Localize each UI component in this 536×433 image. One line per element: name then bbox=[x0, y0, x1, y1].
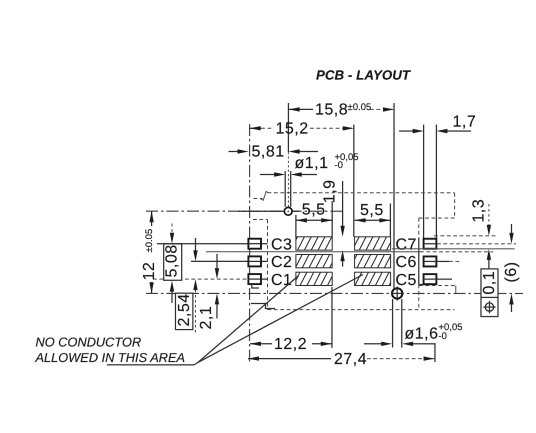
svg-text:±0.05: ±0.05 bbox=[144, 229, 155, 253]
svg-text:15,2: 15,2 bbox=[276, 120, 309, 137]
dimension 15,2 bbox=[250, 120, 354, 137]
pad C3 bbox=[248, 239, 261, 249]
svg-text:2,1: 2,1 bbox=[198, 306, 215, 330]
wire: extension line x=331.2 (12,2 right) bbox=[331, 287, 333, 348]
wire: extension line x=435 (27,4 right) bbox=[434, 343, 436, 362]
svg-text:±0.05: ±0.05 bbox=[348, 102, 372, 113]
dimension 27,4 bbox=[248, 351, 435, 368]
dimension 2,1 bbox=[198, 254, 219, 330]
dashed body outline left side bbox=[253, 219, 268, 309]
dimension hole ø1,6 +0.05/-0 bbox=[364, 322, 463, 346]
wire: extension line x=436.4 (1,7 right / pad C7 right) bbox=[435, 125, 437, 239]
svg-text:1,7: 1,7 bbox=[453, 114, 477, 131]
wire: extension line x=423.6 (1,7 left / pad C7 left) bbox=[423, 125, 425, 239]
leader underline bbox=[107, 363, 198, 365]
hole ø1,1 bbox=[284, 207, 292, 215]
svg-text:12,2: 12,2 bbox=[274, 336, 307, 353]
dimension 1,9 (hatch height) rotated label bbox=[321, 179, 344, 266]
svg-text:C3: C3 bbox=[271, 236, 292, 253]
wire: C2 row line left bbox=[191, 260, 267, 262]
svg-text:NO CONDUCTOR: NO CONDUCTOR bbox=[35, 334, 141, 349]
svg-text:C1: C1 bbox=[271, 272, 292, 289]
label C1 bbox=[271, 272, 292, 289]
wire: bottom centerline row through hole ø1,6 (y=293.4) bbox=[146, 292, 523, 294]
svg-text:0,1: 0,1 bbox=[481, 271, 498, 295]
dimension 12,2 bbox=[250, 336, 332, 353]
leader line to left hatch bbox=[198, 276, 299, 363]
svg-text:5,81: 5,81 bbox=[252, 144, 285, 161]
dimension hole ø1,1 +0.05/-0 bbox=[260, 152, 359, 177]
dimension 1,7 bbox=[399, 114, 476, 134]
svg-text:ALLOWED IN THIS AREA: ALLOWED IN THIS AREA bbox=[34, 350, 185, 365]
pad C2 bbox=[248, 256, 261, 266]
svg-text:27,4: 27,4 bbox=[334, 351, 367, 368]
svg-text:-0: -0 bbox=[438, 331, 446, 342]
right side: pad C7 top extension dashed bbox=[434, 235, 497, 237]
dimension 5,81 bbox=[229, 144, 319, 161]
right side: pad C7 bottom extension solid bbox=[392, 248, 515, 250]
svg-text:2,54: 2,54 bbox=[176, 293, 193, 326]
svg-text:5,08: 5,08 bbox=[164, 244, 181, 277]
hatched area row C2 left bbox=[296, 255, 332, 268]
svg-text:12: 12 bbox=[141, 262, 158, 281]
wire: hole1 left edge extension bbox=[284, 171, 286, 207]
svg-text:ø1,6: ø1,6 bbox=[404, 325, 438, 342]
pad C6 bbox=[424, 256, 437, 266]
dimension 5,5 left bbox=[296, 201, 332, 237]
dimension (6) vertical right bbox=[503, 224, 520, 312]
hatched area row C3 right bbox=[355, 237, 391, 250]
hatched area row C3 left bbox=[296, 237, 332, 250]
dimension 5,5 right bbox=[355, 202, 391, 237]
svg-text:5,5: 5,5 bbox=[360, 202, 384, 219]
wire: C3 row line left bbox=[157, 243, 268, 245]
dashed hidden body outline top with jog bbox=[254, 191, 455, 200]
dashed body outline right step bbox=[419, 193, 455, 310]
svg-text:1,3: 1,3 bbox=[470, 199, 487, 223]
svg-text:C2: C2 bbox=[271, 254, 292, 271]
solid step outline bottom left bbox=[251, 303, 275, 308]
label C2 bbox=[271, 254, 292, 271]
svg-text:C7: C7 bbox=[395, 236, 416, 253]
wire: C1 row line left bbox=[153, 278, 268, 280]
right side: C6 row stub bbox=[437, 260, 461, 262]
label C7 bbox=[395, 236, 416, 253]
hatched area row C2 right bbox=[355, 255, 391, 268]
pad C7 bbox=[424, 239, 437, 249]
wire: extension line x=392.6 (15,8 right / hole2 left edge) bbox=[393, 103, 394, 348]
dimension 12 +-0.05 vertical bbox=[141, 211, 158, 293]
wire: long extension line under hatch row C3 (y=251.8) bbox=[206, 251, 493, 253]
wire: hole1 right edge extension bbox=[290, 171, 292, 207]
svg-text:C6: C6 bbox=[395, 254, 416, 271]
label C5 bbox=[395, 272, 416, 289]
svg-text:15,8: 15,8 bbox=[315, 101, 348, 118]
label C3 bbox=[271, 236, 292, 253]
right side: C7 row line dashed to right bbox=[437, 243, 516, 245]
wire: top centerline row through hole ø1,1 (y=210.9) bbox=[146, 210, 343, 212]
svg-text:-0: -0 bbox=[335, 160, 343, 171]
label C6 bbox=[395, 254, 416, 271]
dimension 5,08 boxed bbox=[164, 223, 182, 303]
dimension 1,3 vertical (pad height) bbox=[470, 199, 491, 269]
svg-text:PCB - LAYOUT: PCB - LAYOUT bbox=[316, 68, 411, 83]
svg-text:ø1,1: ø1,1 bbox=[295, 155, 329, 172]
wire: extension line x=353.8 (15,2 right / right hatch left) bbox=[353, 125, 355, 237]
right side: C5 row stub and bracket bbox=[419, 279, 456, 293]
svg-text:1,9: 1,9 bbox=[322, 179, 339, 203]
solid step below pad C1 bbox=[252, 284, 259, 288]
title PCB - LAYOUT bbox=[316, 68, 411, 83]
hatched area row C1 left bbox=[296, 272, 332, 285]
wire: hole2 right edge extension bbox=[401, 299, 403, 348]
dashed body outline bottom bbox=[267, 309, 454, 311]
dimension 2,54 boxed bbox=[175, 238, 197, 334]
note text NO CONDUCTOR ALLOWED IN THIS AREA bbox=[34, 334, 185, 365]
hole ø1,6 with crosshair bbox=[391, 287, 404, 301]
wire: extension line x=288.6 hole1 center vertical bbox=[287, 103, 289, 207]
pad C1 bbox=[248, 274, 261, 284]
hatched area row C1 right bbox=[355, 272, 391, 285]
wire: left extension line x=249.6 (dash-dot vertical) bbox=[249, 124, 251, 362]
pad C5 bbox=[424, 274, 437, 284]
svg-text:C5: C5 bbox=[395, 272, 416, 289]
leader line to right hatch bbox=[198, 274, 363, 362]
dimension 15,8 +-0.05 bbox=[289, 101, 394, 118]
feature control frame 0,1 with position symbol bbox=[481, 269, 498, 317]
svg-text:(6): (6) bbox=[503, 262, 520, 283]
